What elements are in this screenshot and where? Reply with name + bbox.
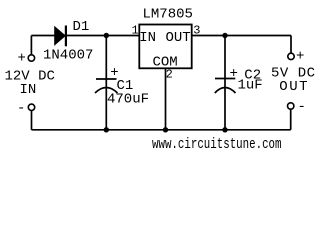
junction dot bottom C2 xyxy=(222,127,227,132)
junction dot bottom C1 xyxy=(104,127,109,132)
svg-text:IN: IN xyxy=(139,30,156,46)
wire left negative stub xyxy=(31,111,33,130)
capacitor C1 xyxy=(95,79,118,93)
svg-text:OUT: OUT xyxy=(279,79,309,95)
wire COM pin2 vertical xyxy=(165,68,167,130)
svg-text:OUT: OUT xyxy=(166,30,191,46)
svg-text:LM7805: LM7805 xyxy=(143,7,193,23)
svg-text:+: + xyxy=(18,50,26,66)
junction dot top C1 xyxy=(104,33,109,38)
svg-text:1uF: 1uF xyxy=(238,78,263,94)
terminal left positive xyxy=(28,55,34,61)
svg-text:1: 1 xyxy=(132,24,139,38)
capacitor C2 xyxy=(215,79,236,94)
wire right positive stub xyxy=(290,36,292,54)
svg-text:+: + xyxy=(296,48,304,64)
wire C2 vertical xyxy=(224,36,226,130)
op-amp U1 regulator box LM7805 xyxy=(139,25,191,69)
wire bottom rail xyxy=(32,129,291,131)
svg-text:470uF: 470uF xyxy=(107,92,149,108)
svg-text:IN: IN xyxy=(20,82,37,98)
wire top rail xyxy=(31,35,291,37)
svg-text:2: 2 xyxy=(166,68,173,82)
svg-text:-: - xyxy=(17,100,25,116)
terminal left negative xyxy=(28,104,34,110)
wire left positive stub xyxy=(30,36,32,55)
wire right negative stub xyxy=(290,110,292,130)
junction dot top C2 xyxy=(222,33,227,38)
svg-text:3: 3 xyxy=(193,24,200,38)
svg-text:1N4007: 1N4007 xyxy=(43,48,93,64)
svg-text:-: - xyxy=(298,99,306,115)
terminal right positive xyxy=(288,53,294,59)
svg-text:www.circuitstune.com: www.circuitstune.com xyxy=(152,137,282,153)
svg-text:D1: D1 xyxy=(73,19,90,35)
terminal right negative xyxy=(288,103,294,109)
diode D1 xyxy=(55,26,66,47)
wire C1 vertical xyxy=(105,36,107,130)
junction dot bottom COM xyxy=(163,127,168,132)
